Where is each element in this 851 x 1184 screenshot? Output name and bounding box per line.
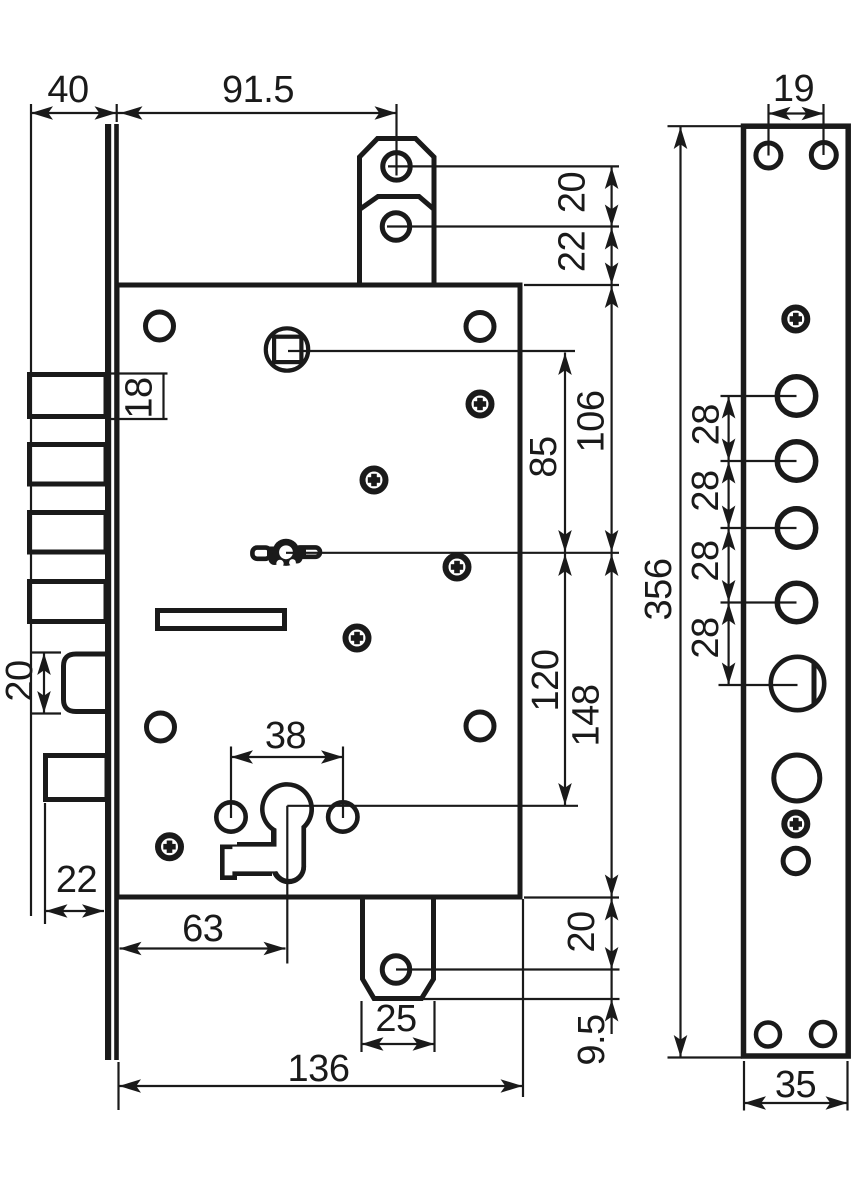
dim 28 c (685, 529, 735, 603)
faceplate bolt hole 4 (777, 583, 815, 621)
spindle square hole (274, 337, 301, 362)
dim 18 bracket (108, 374, 168, 420)
svg-text:22: 22 (56, 859, 97, 901)
svg-text:19: 19 (773, 68, 814, 110)
svg-text:38: 38 (265, 715, 306, 757)
svg-text:20: 20 (0, 660, 41, 701)
lock case body outline (117, 285, 520, 897)
top tab upper screw hole (383, 153, 411, 181)
top tab lower screw hole (382, 213, 410, 241)
extension bottom tab lower edge (422, 998, 620, 1000)
svg-text:35: 35 (775, 1064, 816, 1106)
centerline faceplate hole 4 (721, 601, 797, 603)
auxiliary bolt (22 wide) (46, 756, 108, 800)
dim 35 (744, 1061, 848, 1111)
latch bolt (rounded) (64, 654, 108, 712)
dim 25 (362, 998, 435, 1052)
svg-text:40: 40 (47, 69, 88, 111)
svg-text:28: 28 (685, 470, 727, 511)
tick at faceplate (40/91.5) (116, 104, 118, 122)
cylinder fixing hole left (216, 802, 245, 831)
dim 22 lower-left (45, 803, 104, 924)
centerline faceplate latch hole (719, 684, 798, 686)
faceplate hole top-right (811, 143, 836, 168)
svg-text:356: 356 (638, 559, 680, 621)
dim 20 bottom chain (561, 899, 618, 970)
faceplate bolt hole 2 (777, 442, 815, 480)
screw boss S2 (363, 469, 386, 492)
centerline cam (286, 552, 619, 554)
svg-text:91.5: 91.5 (222, 69, 294, 111)
centerline top tab hole 2 (387, 225, 619, 227)
dimension line 40/91.5 (31, 112, 397, 114)
centerline bottom tab hole (396, 968, 620, 970)
svg-text:9.5: 9.5 (571, 1014, 613, 1065)
centerline spindle (288, 350, 575, 352)
dim 120 (525, 554, 572, 805)
svg-text:28: 28 (685, 404, 727, 445)
dim 9.5 (571, 1000, 618, 1066)
case hole top-left (146, 312, 174, 340)
dim 148 (566, 554, 619, 897)
dim 38 keyhole circles (231, 715, 343, 818)
spindle hub circle (266, 328, 308, 370)
dim 28 a (685, 397, 735, 461)
dim 28 b (685, 462, 735, 528)
svg-text:25: 25 (375, 998, 416, 1040)
dimension line chain right (610, 167, 612, 1034)
faceplate small hole (783, 848, 808, 873)
dim 40 (31, 69, 117, 120)
svg-text:63: 63 (182, 908, 223, 950)
faceplate screw upper (784, 308, 807, 331)
top fixing tab outline (chamfered) (360, 139, 435, 285)
dim 20 latch (0, 653, 61, 714)
centerline faceplate hole 3 (721, 527, 797, 529)
dim 106 (571, 286, 619, 552)
dim 19 (769, 68, 824, 156)
dimension line chain mid (564, 353, 566, 806)
faceplate bolt hole 1 (777, 377, 815, 415)
long slot opening (158, 611, 285, 629)
svg-text:20: 20 (561, 911, 603, 952)
screw boss S5 (158, 835, 181, 858)
dim 20 top chain (552, 167, 619, 227)
faceplate screw lower (784, 813, 807, 836)
dim 28 d (685, 603, 735, 685)
dim 63 (120, 908, 286, 955)
faceplate auxiliary hole (774, 755, 820, 801)
svg-text:136: 136 (288, 1048, 350, 1090)
svg-text:28: 28 (685, 540, 727, 581)
bottom tab screw hole (382, 956, 410, 984)
case hole top-right (466, 313, 494, 341)
svg-text:106: 106 (571, 391, 613, 453)
dim 136 (119, 899, 524, 1110)
svg-text:148: 148 (566, 685, 608, 747)
dim 85 (523, 353, 572, 552)
svg-text:120: 120 (525, 650, 567, 712)
deadbolt 1 (30, 375, 107, 417)
top tab step edge (chamfered) (360, 197, 434, 210)
centerline faceplate hole 2 (721, 460, 797, 462)
case hole mid-right (466, 712, 494, 740)
centerline top tab (395, 104, 397, 176)
faceplate front outline (744, 126, 849, 1056)
screw boss S3 (446, 556, 469, 579)
lock faceplate edge (side view, double line) (105, 124, 119, 1060)
centerline faceplate hole 1 (721, 395, 797, 397)
case hole mid-left (147, 713, 175, 741)
dim 91.5 (121, 69, 397, 120)
svg-text:28: 28 (685, 617, 727, 658)
dimension line 28-chain (727, 396, 729, 685)
centerline keyhole horizontal (287, 805, 578, 807)
svg-text:18: 18 (119, 377, 161, 418)
cam lever (lock actuator) (252, 539, 320, 568)
faceplate hole bottom-left (756, 1023, 780, 1047)
centerline keyhole vertical (286, 806, 288, 964)
svg-text:20: 20 (552, 172, 594, 213)
deadbolt 2 (30, 445, 107, 485)
faceplate hole top-left (756, 143, 781, 168)
centerline top tab hole 1 (388, 165, 619, 167)
extension case bottom (524, 896, 619, 898)
dim 22 top chain (552, 228, 619, 285)
extension line left of bolts (under bolts) (30, 104, 32, 916)
faceplate hole bottom-right (811, 1022, 835, 1046)
euro cylinder profile (keyhole) (220, 782, 314, 884)
deadbolt 4 (30, 582, 107, 622)
faceplate latch hole (D-shape) (771, 657, 824, 710)
extension case top (524, 284, 619, 286)
dim 356 (638, 126, 742, 1057)
deadbolt 3 (30, 513, 107, 553)
faceplate bolt hole 3 (777, 509, 815, 547)
screw boss S4 (346, 627, 369, 650)
svg-text:85: 85 (523, 436, 565, 477)
screw boss S1 (469, 393, 492, 416)
bottom fixing tab outline (chamfered) (363, 897, 434, 999)
cylinder fixing hole right (328, 802, 357, 831)
svg-text:22: 22 (552, 231, 594, 272)
